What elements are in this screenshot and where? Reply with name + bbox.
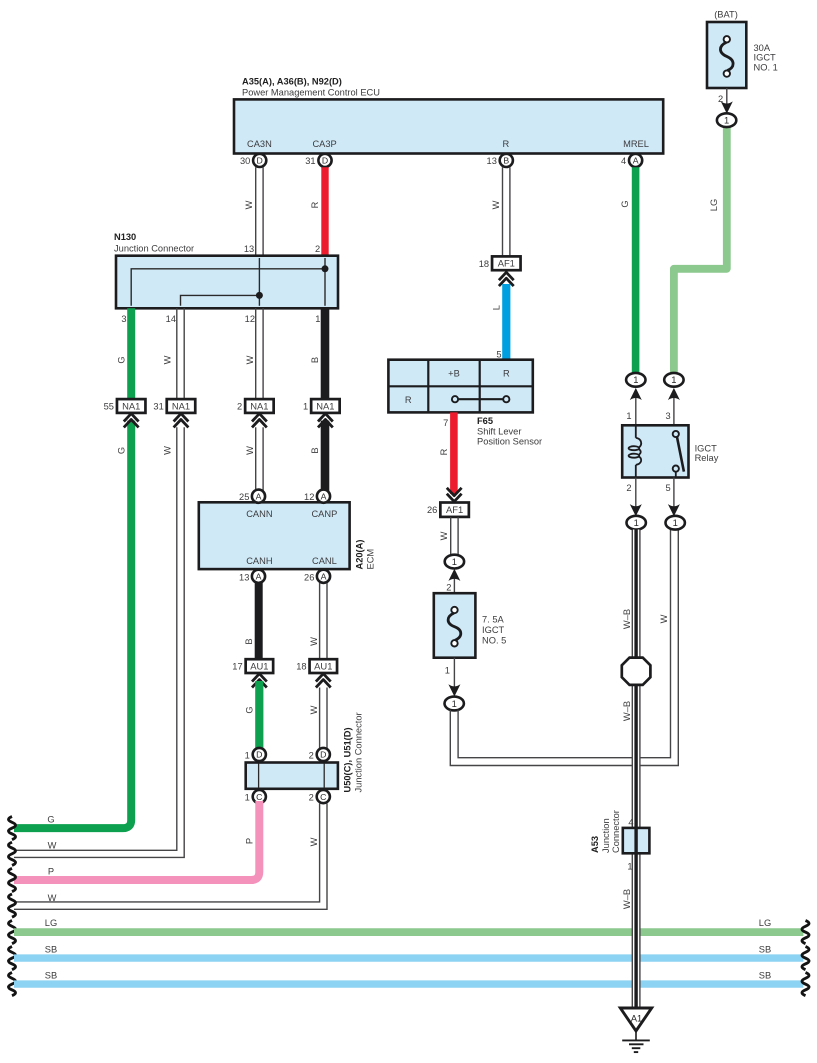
svg-text:N130: N130: [114, 232, 136, 242]
svg-text:ECM: ECM: [366, 549, 376, 570]
svg-text:25: 25: [239, 492, 249, 502]
svg-text:R: R: [439, 448, 449, 455]
svg-text:G: G: [117, 447, 127, 454]
svg-text:Connector: Connector: [611, 810, 621, 853]
svg-text:R: R: [503, 369, 510, 379]
svg-text:W: W: [48, 893, 57, 903]
svg-text:4: 4: [621, 156, 626, 166]
svg-text:NO. 1: NO. 1: [754, 62, 778, 72]
svg-text:W: W: [309, 837, 319, 846]
svg-text:LG: LG: [709, 199, 719, 211]
svg-text:W: W: [162, 446, 172, 455]
svg-text:18: 18: [479, 259, 489, 269]
svg-text:LG: LG: [45, 918, 57, 928]
svg-text:G: G: [117, 356, 127, 363]
svg-text:3: 3: [121, 314, 126, 324]
svg-text:7: 7: [443, 418, 448, 428]
svg-text:Junction Connector: Junction Connector: [353, 712, 363, 792]
svg-text:U50(C), U51(D): U50(C), U51(D): [342, 727, 352, 792]
svg-text:W: W: [245, 446, 255, 455]
svg-text:5: 5: [666, 483, 671, 493]
svg-text:2: 2: [626, 483, 631, 493]
svg-text:12: 12: [304, 492, 314, 502]
svg-text:2: 2: [446, 582, 451, 592]
svg-text:Junction: Junction: [601, 818, 611, 853]
svg-text:31: 31: [153, 402, 163, 412]
svg-text:1: 1: [245, 750, 250, 760]
svg-text:W: W: [48, 841, 57, 851]
svg-text:CANN: CANN: [246, 509, 272, 519]
svg-text:(BAT): (BAT): [714, 10, 738, 20]
svg-text:1: 1: [673, 517, 678, 528]
svg-text:AF1: AF1: [446, 504, 463, 515]
svg-text:W: W: [491, 200, 501, 209]
svg-text:Relay: Relay: [695, 453, 719, 463]
svg-text:A: A: [321, 491, 327, 501]
svg-text:Position Sensor: Position Sensor: [477, 436, 542, 446]
svg-text:2: 2: [309, 750, 314, 760]
svg-text:2: 2: [309, 793, 314, 803]
svg-text:C: C: [320, 792, 326, 802]
svg-text:W: W: [659, 614, 669, 623]
svg-text:D: D: [256, 750, 262, 760]
svg-text:1: 1: [303, 402, 308, 412]
svg-text:G: G: [47, 814, 54, 824]
svg-text:1: 1: [315, 314, 320, 324]
svg-text:31: 31: [305, 156, 315, 166]
svg-text:26: 26: [304, 572, 314, 582]
svg-text:12: 12: [245, 314, 255, 324]
svg-text:D: D: [320, 750, 326, 760]
svg-text:IGCT: IGCT: [482, 625, 505, 635]
svg-text:1: 1: [626, 411, 631, 421]
svg-text:A: A: [321, 572, 327, 582]
svg-text:A: A: [256, 491, 262, 501]
svg-text:L: L: [491, 305, 501, 310]
svg-text:13: 13: [239, 572, 249, 582]
svg-text:W–B: W–B: [622, 701, 632, 721]
svg-text:W: W: [244, 200, 254, 209]
svg-text:NA1: NA1: [316, 400, 334, 411]
svg-text:1: 1: [627, 862, 632, 872]
svg-text:5: 5: [496, 349, 501, 359]
svg-text:B: B: [310, 447, 320, 453]
svg-text:55: 55: [104, 402, 114, 412]
svg-text:1: 1: [724, 115, 729, 126]
svg-text:IGCT: IGCT: [754, 53, 777, 63]
svg-text:1: 1: [452, 698, 457, 709]
svg-text:NA1: NA1: [172, 400, 190, 411]
svg-text:Junction Connector: Junction Connector: [114, 244, 194, 254]
svg-text:W: W: [162, 355, 172, 364]
svg-text:2: 2: [237, 402, 242, 412]
svg-text:7. 5A: 7. 5A: [482, 614, 505, 624]
svg-text:R: R: [310, 201, 320, 208]
svg-text:D: D: [322, 156, 328, 166]
svg-text:A: A: [633, 156, 639, 166]
svg-text:SB: SB: [45, 944, 57, 954]
svg-text:NA1: NA1: [122, 400, 140, 411]
svg-text:R: R: [503, 139, 510, 149]
svg-text:IGCT: IGCT: [695, 443, 718, 453]
svg-text:NO. 5: NO. 5: [482, 636, 506, 646]
svg-text:26: 26: [427, 505, 437, 515]
svg-text:CA3P: CA3P: [312, 139, 336, 149]
svg-text:1: 1: [452, 556, 457, 567]
svg-text:W–B: W–B: [622, 889, 632, 909]
svg-text:G: G: [244, 706, 254, 713]
svg-text:AU1: AU1: [314, 661, 332, 672]
svg-text:D: D: [257, 156, 263, 166]
svg-text:30: 30: [240, 156, 250, 166]
svg-text:13: 13: [244, 244, 254, 254]
svg-text:F65: F65: [477, 416, 493, 426]
svg-text:17: 17: [232, 662, 242, 672]
svg-text:B: B: [310, 357, 320, 363]
svg-text:CANL: CANL: [312, 556, 337, 566]
svg-text:SB: SB: [759, 944, 771, 954]
svg-text:LG: LG: [759, 918, 771, 928]
svg-text:A35(A), A36(B), N92(D): A35(A), A36(B), N92(D): [242, 77, 342, 87]
svg-text:+B: +B: [448, 369, 460, 379]
svg-text:AU1: AU1: [250, 661, 268, 672]
svg-text:1: 1: [634, 517, 639, 528]
svg-text:W–B: W–B: [622, 609, 632, 629]
svg-text:AF1: AF1: [498, 258, 515, 269]
svg-text:1: 1: [245, 793, 250, 803]
svg-text:30A: 30A: [754, 43, 771, 53]
svg-text:18: 18: [296, 662, 306, 672]
svg-text:CANP: CANP: [311, 509, 337, 519]
svg-text:P: P: [48, 867, 54, 877]
svg-text:A1: A1: [631, 1013, 642, 1023]
svg-text:1: 1: [445, 665, 450, 675]
svg-text:A53: A53: [590, 836, 600, 853]
svg-text:MREL: MREL: [623, 139, 649, 149]
svg-text:Shift Lever: Shift Lever: [477, 426, 521, 436]
svg-text:SB: SB: [45, 970, 57, 980]
svg-text:C: C: [256, 792, 262, 802]
svg-text:A: A: [256, 572, 262, 582]
svg-text:CA3N: CA3N: [247, 139, 272, 149]
svg-text:CANH: CANH: [246, 556, 272, 566]
svg-text:W: W: [309, 637, 319, 646]
svg-text:B: B: [244, 638, 254, 644]
svg-text:W: W: [245, 355, 255, 364]
svg-text:13: 13: [487, 156, 497, 166]
svg-text:4: 4: [628, 817, 633, 827]
svg-text:2: 2: [315, 244, 320, 254]
svg-text:1: 1: [671, 374, 676, 385]
svg-text:B: B: [503, 156, 509, 166]
svg-text:NA1: NA1: [250, 400, 268, 411]
svg-text:SB: SB: [759, 970, 771, 980]
svg-text:G: G: [620, 200, 630, 207]
svg-text:R: R: [405, 395, 412, 405]
svg-text:Power Management Control ECU: Power Management Control ECU: [242, 87, 380, 97]
svg-text:14: 14: [166, 314, 176, 324]
svg-text:W: W: [309, 705, 319, 714]
svg-text:P: P: [244, 838, 254, 844]
svg-text:1: 1: [633, 374, 638, 385]
svg-text:A20(A): A20(A): [355, 540, 365, 570]
svg-text:W: W: [439, 531, 449, 540]
svg-text:3: 3: [666, 411, 671, 421]
